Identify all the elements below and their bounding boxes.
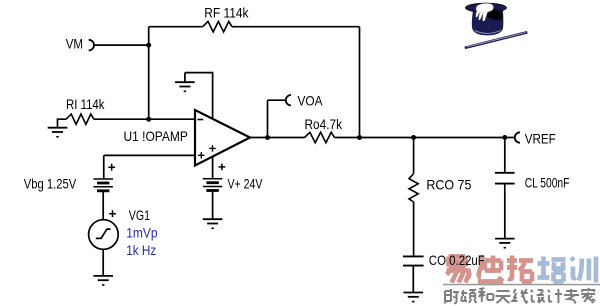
svg-text:RF 114k: RF 114k: [204, 4, 249, 20]
svg-text:U1 !OPAMP: U1 !OPAMP: [124, 128, 188, 144]
svg-text:CO 0.22uF: CO 0.22uF: [429, 252, 485, 268]
svg-text:VM: VM: [66, 36, 83, 52]
svg-text:RCO 75: RCO 75: [426, 176, 471, 192]
svg-text:VOA: VOA: [298, 92, 324, 108]
svg-text:RI 114k: RI 114k: [66, 96, 105, 112]
svg-text:1k Hz: 1k Hz: [126, 242, 156, 258]
svg-text:VG1: VG1: [129, 207, 150, 223]
svg-text:1mVp: 1mVp: [126, 225, 157, 241]
svg-text:Vbg 1.25V: Vbg 1.25V: [24, 175, 77, 191]
svg-text:VREF: VREF: [525, 131, 556, 147]
svg-text:Ro4.7k: Ro4.7k: [305, 116, 343, 132]
svg-text:V+ 24V: V+ 24V: [228, 176, 263, 192]
svg-text:CL 500nF: CL 500nF: [525, 174, 570, 190]
